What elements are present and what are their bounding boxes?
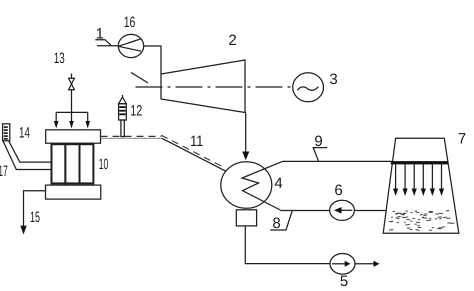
svg-text:7: 7: [458, 131, 466, 148]
svg-text:6: 6: [334, 182, 342, 199]
svg-text:10: 10: [99, 156, 109, 173]
svg-text:8: 8: [272, 215, 280, 232]
svg-text:14: 14: [19, 124, 30, 141]
svg-text:4: 4: [274, 175, 282, 192]
svg-text:17: 17: [0, 163, 8, 180]
svg-text:3: 3: [329, 71, 337, 88]
svg-text:5: 5: [340, 273, 348, 290]
svg-text:15: 15: [30, 209, 40, 226]
svg-text:13: 13: [54, 50, 65, 67]
svg-text:11: 11: [190, 133, 203, 150]
svg-text:2: 2: [228, 32, 236, 49]
svg-text:16: 16: [124, 14, 136, 31]
svg-text:12: 12: [130, 103, 142, 120]
